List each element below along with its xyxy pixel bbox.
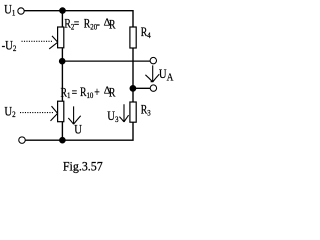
control dotted line -U2 — [22, 40, 53, 42]
terminal U1 — [18, 8, 24, 14]
svg-text:R: R — [109, 86, 116, 99]
control arrowhead into R2 — [49, 36, 58, 49]
svg-text:R4: R4 — [141, 26, 151, 40]
terminal UA top — [150, 57, 156, 63]
control arrowhead into R1 — [51, 106, 58, 121]
control dotted line U2 — [20, 112, 53, 114]
wire node D to terminal — [133, 87, 150, 89]
node C junction — [59, 137, 66, 144]
svg-text:U: U — [74, 123, 82, 137]
resistor R2 — [58, 27, 64, 48]
svg-text:U3: U3 — [107, 109, 118, 124]
wire U1 drop to R2 — [61, 11, 63, 27]
label R1 equation — [61, 85, 116, 101]
wire R1 bottom to bottom rail — [61, 122, 63, 141]
wire node B to R1 — [61, 61, 63, 101]
svg-text:Fig.3.57: Fig.3.57 — [63, 159, 103, 174]
svg-text:U2: U2 — [4, 105, 15, 120]
svg-text:-U2: -U2 — [2, 39, 17, 54]
svg-text:U1: U1 — [4, 3, 15, 18]
resistor R1 — [58, 101, 64, 122]
wire R2 bottom to node B — [61, 48, 63, 61]
svg-text:-: - — [97, 18, 101, 31]
wire top rail — [24, 11, 133, 27]
voltage arrow U3 across R3 — [119, 104, 128, 122]
node B junction — [59, 58, 66, 65]
resistor R4 — [130, 27, 136, 48]
voltage arrow UA output — [145, 65, 159, 82]
svg-text:+: + — [94, 86, 100, 99]
svg-text:R10: R10 — [80, 86, 93, 100]
svg-text:UA: UA — [159, 67, 174, 84]
svg-text:=: = — [74, 18, 80, 31]
node D junction — [130, 85, 137, 92]
svg-text:R: R — [109, 18, 116, 31]
terminal UA bottom — [150, 85, 156, 91]
svg-text:=: = — [72, 86, 78, 99]
wire mid rail node B to terminal — [62, 60, 150, 62]
node A junction — [59, 7, 66, 14]
terminal U2 bottom-left — [19, 137, 26, 144]
wire right branch R4 to R3 — [132, 48, 134, 102]
voltage arrow U across R1 — [68, 106, 80, 124]
resistor R3 — [130, 102, 136, 122]
svg-text:R20: R20 — [84, 18, 97, 32]
wire bottom rail — [25, 122, 133, 140]
label R2 equation — [64, 16, 116, 31]
svg-text:R1: R1 — [61, 86, 71, 100]
svg-text:R3: R3 — [141, 104, 151, 118]
